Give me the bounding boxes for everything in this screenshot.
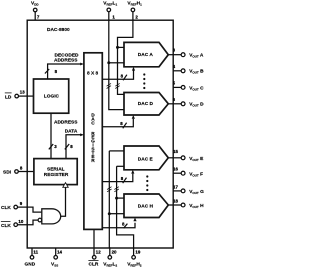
pin 6 VOUT D — [168, 97, 204, 108]
pin 20 VREFL2 — [103, 249, 117, 267]
junction dot VREFL1 to DAC A — [107, 61, 110, 64]
pin 7 VDD — [31, 1, 40, 21]
wire decoded address LOGIC to DAC register — [48, 64, 81, 79]
pin 18 VOUT H — [168, 198, 204, 209]
svg-text:DAC H: DAC H — [138, 204, 154, 210]
AND gate U2 — [38, 209, 61, 224]
serial register clock triangle — [63, 183, 68, 188]
svg-text:CLK: CLK — [1, 205, 11, 211]
pin 17 VOUT G — [173, 184, 204, 195]
svg-text:DATA: DATA — [65, 129, 78, 135]
chip outline U1 DAC-8800 — [27, 20, 173, 248]
wire VREFL2 to DAC H lower input — [109, 213, 124, 215]
svg-text:16: 16 — [173, 167, 178, 172]
svg-text:ADDRESS: ADDRESS — [54, 57, 78, 63]
svg-text:DAC E: DAC E — [138, 157, 154, 163]
wire DAC register to DAC H data bus — [102, 223, 135, 228]
pin 16 VOUT F — [173, 167, 203, 178]
bus slash DAC D 8 — [123, 123, 127, 129]
svg-text:ADDRESS: ADDRESS — [54, 119, 78, 125]
pin 3 VOUT A — [168, 47, 204, 58]
svg-text:20: 20 — [112, 249, 117, 254]
svg-text:19: 19 — [135, 249, 140, 254]
svg-text:18: 18 — [173, 198, 178, 203]
pin 19 VREFH2 — [127, 249, 142, 267]
ellipsis dots between DAC A and DAC D — [143, 73, 145, 89]
pin 14 VSS — [51, 248, 63, 268]
svg-text:12: 12 — [96, 250, 101, 255]
wire DAC register to DAC A data bus — [102, 71, 133, 80]
wire VREFL2 to DAC E upper input — [109, 150, 124, 152]
DAC D — [124, 93, 168, 116]
svg-text:GND: GND — [25, 261, 36, 267]
pin 13 LD — [5, 90, 34, 101]
wire VREFL1 to DAC A lower input — [109, 62, 124, 64]
wire VREFH2 to DAC H upper input — [117, 197, 124, 199]
bus slash address 3 — [49, 144, 53, 149]
svg-text:14: 14 — [57, 250, 62, 255]
pin 2 VREFH1 — [127, 1, 142, 21]
wire VREFH2 vertical (pin 19) with jog — [117, 166, 134, 255]
pin 11 GND — [25, 248, 39, 268]
pin 15 VOUT E — [168, 149, 204, 162]
junction dot VREFH1 to DAC A — [116, 46, 119, 49]
svg-text:11: 11 — [33, 250, 38, 255]
svg-text:10: 10 — [18, 219, 23, 224]
DAC A — [124, 42, 168, 66]
wire AND output to serial register clock — [61, 187, 66, 216]
bus slash DAC A 8 — [123, 75, 127, 81]
svg-text:CLR: CLR — [89, 261, 99, 267]
pin 1 VREFL1 — [103, 1, 117, 21]
break mark on VREFL1 — [107, 83, 111, 88]
svg-text:17: 17 — [173, 184, 178, 189]
svg-text:13: 13 — [20, 90, 25, 95]
pin 4 VOUT B — [173, 64, 204, 75]
svg-text:CLK: CLK — [1, 223, 11, 229]
wire VREFL2 vertical (pin 20) — [108, 151, 111, 256]
svg-text:15: 15 — [173, 149, 178, 154]
bus slash decoded address 8 — [45, 69, 49, 74]
svg-text:SERIAL: SERIAL — [47, 167, 65, 173]
svg-text:REGISTER: REGISTER — [44, 172, 69, 178]
wire VREFL1 vertical — [109, 20, 124, 109]
svg-text:SDI: SDI — [3, 170, 12, 176]
serial register block — [34, 159, 77, 185]
svg-text:DAC-8800: DAC-8800 — [47, 27, 70, 33]
pin 8 SDI — [3, 166, 34, 176]
pin 10 CLKB — [1, 219, 38, 229]
break mark on VREFL2 — [107, 187, 111, 192]
wire VREFH2 to DAC E lower input — [117, 165, 124, 167]
wire DAC register to DAC D data bus — [102, 119, 133, 127]
wire DAC register to DAC E data bus — [102, 174, 133, 182]
DAC E — [124, 146, 168, 170]
DAC register block 8x8 — [84, 53, 102, 230]
svg-text:8 X 8: 8 X 8 — [87, 71, 99, 77]
break mark on VREFH1 — [115, 83, 119, 88]
bus slash data 8 — [65, 144, 69, 149]
wire address serial register to LOGIC — [50, 113, 52, 158]
pin 9 CLK — [1, 201, 42, 212]
svg-text:DAC D: DAC D — [138, 101, 154, 107]
break mark on VREFH2 — [114, 187, 118, 192]
bus slash DAC E 8 — [123, 178, 127, 184]
pin 5 VOUT C — [173, 80, 204, 91]
DAC H — [124, 194, 168, 218]
logic block — [34, 79, 69, 113]
svg-text:LD: LD — [5, 94, 12, 100]
svg-text:DAC A: DAC A — [138, 52, 154, 58]
wire data serial register to DAC register — [66, 135, 81, 159]
junction dot VREFL2 to DAC H — [108, 212, 111, 215]
bus slash DAC H 8 — [124, 224, 128, 229]
wire VREFH1 to DAC A upper input — [118, 46, 125, 48]
junction dot VREFH2 to DAC H — [115, 197, 118, 200]
pin 12 CLRB — [88, 229, 101, 267]
svg-text:R: R — [91, 158, 95, 164]
wire VREFH1 vertical with jog — [118, 20, 133, 94]
svg-text:LOGIC: LOGIC — [44, 93, 60, 99]
svg-text:C: C — [91, 120, 95, 126]
ellipsis dots between DAC E and DAC H — [146, 175, 148, 191]
